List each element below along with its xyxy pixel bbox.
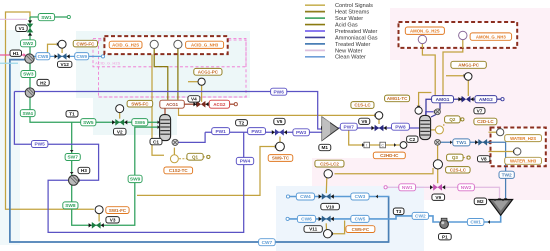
- equipment label H3: [78, 167, 90, 173]
- stream label SW9: [128, 175, 142, 182]
- svg-text:SW9: SW9: [130, 177, 141, 183]
- controller AMG1-TC: [415, 107, 422, 114]
- stream label SW2: [21, 40, 36, 47]
- stream label CW9: [75, 53, 89, 60]
- svg-text:C1S2-TC: C1S2-TC: [169, 168, 189, 173]
- stream label SW8: [63, 202, 78, 209]
- heat exchanger H1: [25, 54, 34, 63]
- wire main pretreated line: [205, 131, 322, 133]
- source label AMON_G_H2S: [405, 27, 444, 34]
- wire heat Q2 terminal link: [459, 118, 462, 120]
- wire TW2 down to M2: [505, 142, 507, 198]
- wire AMON circle1 stub: [421, 43, 423, 48]
- valve V10: [322, 193, 326, 200]
- wire AMON circle2 stub: [462, 39, 464, 48]
- wire control ACG1-PC to V4: [201, 85, 203, 101]
- svg-text:V8: V8: [481, 157, 487, 162]
- wire heat Q1 terminal link: [203, 156, 207, 158]
- terminal ACG2: [234, 103, 237, 106]
- svg-text:Ammoniacal Gas: Ammoniacal Gas: [335, 35, 378, 41]
- svg-text:PW7: PW7: [344, 124, 355, 130]
- equipment label V12: [58, 61, 72, 67]
- equipment label V5: [274, 118, 285, 124]
- wire sour tee T1 down branch: [72, 122, 159, 225]
- wire heat Q3 terminal link: [463, 157, 466, 159]
- instrument square 1: [364, 142, 370, 148]
- stream label CW6: [297, 215, 315, 222]
- stream label NW2: [458, 184, 475, 191]
- equipment label C2: [407, 136, 418, 142]
- svg-text:AMG1-TC: AMG1-TC: [387, 96, 408, 101]
- control label SW9-TC: [268, 155, 293, 162]
- stream label CW7: [259, 239, 276, 246]
- node ACID circle2: [174, 40, 182, 48]
- terminal Q3: [467, 156, 470, 159]
- valve V9: [433, 184, 437, 191]
- svg-text:V6: V6: [361, 119, 367, 124]
- column C1: [160, 115, 171, 141]
- stream label PW5: [31, 141, 48, 148]
- stream label NW1: [399, 184, 416, 191]
- wire C2 overhead to AMG1: [426, 99, 431, 115]
- wire control AMG1-PC to V7: [467, 80, 469, 96]
- control label AMG1-TC: [385, 95, 410, 102]
- wire control AMON H2S to AMG1: [422, 43, 435, 95]
- svg-text:t: t: [366, 143, 367, 147]
- svg-text:CW9: CW9: [76, 54, 87, 60]
- pump P1: [440, 220, 449, 229]
- wire C1 bottoms to PW1: [179, 132, 206, 142]
- background tint acid-gas area: [76, 31, 250, 98]
- terminal AMG2: [501, 98, 504, 101]
- background tint sour-water area: [93, 98, 177, 135]
- svg-text:H3: H3: [81, 168, 87, 173]
- stream label CW5: [351, 215, 369, 222]
- node AMON circle1: [418, 35, 426, 43]
- svg-text:Q1: Q1: [192, 154, 199, 159]
- svg-text:Q3: Q3: [452, 155, 459, 160]
- arrow into H3: [70, 172, 74, 174]
- wire khaki into WATER_NH3 circle: [489, 151, 514, 153]
- equipment label C1: [150, 138, 162, 144]
- svg-text:V10: V10: [326, 204, 335, 209]
- svg-text:PW3: PW3: [296, 130, 307, 136]
- dashed box WATER: [491, 128, 546, 167]
- terminal CW6: [286, 217, 289, 220]
- wire ACG1 to V4: [185, 103, 198, 105]
- stream label CW1: [467, 219, 484, 226]
- svg-text:CW2: CW2: [415, 214, 426, 220]
- equipment label P1: [439, 234, 452, 240]
- area boundary dashed magenta: [98, 40, 246, 97]
- wire control AMG1-TC: [419, 93, 432, 107]
- svg-text:SW8: SW8: [65, 203, 76, 209]
- stream label PW4: [236, 157, 253, 164]
- controller C2S-LC2: [324, 170, 332, 178]
- wire heat Q2 out: [443, 123, 445, 126]
- valve V8: [478, 139, 482, 146]
- svg-text:T3: T3: [396, 209, 402, 214]
- wire AMG2 out: [497, 98, 501, 100]
- svg-text:CW7: CW7: [262, 240, 273, 246]
- stream label PW8: [392, 123, 410, 130]
- svg-text:PW6: PW6: [273, 89, 284, 95]
- terminal Q1: [207, 155, 210, 158]
- svg-text:V5: V5: [277, 119, 283, 124]
- stream label PW1: [212, 128, 230, 135]
- wire control CW5-FC to V11: [325, 223, 327, 229]
- wire V7 to AMG2: [470, 98, 475, 100]
- control label SW5-FC: [127, 100, 153, 107]
- valve V7: [462, 96, 466, 103]
- svg-text:C2D-LC: C2D-LC: [477, 119, 494, 124]
- control label AMG1-PC: [451, 61, 486, 68]
- control label C1S2-TC: [164, 167, 193, 174]
- source label ACG2: [209, 100, 229, 108]
- valve V1: [27, 24, 34, 28]
- equipment label M1: [319, 144, 331, 150]
- svg-text:SW9-TC: SW9-TC: [272, 156, 290, 161]
- wire heat Q1 stub: [173, 148, 175, 155]
- stream label PW2: [248, 128, 266, 135]
- wire CW vertical riser: [388, 197, 390, 243]
- wire acid circle1 to ACG1: [154, 48, 168, 100]
- svg-text:SW7: SW7: [67, 155, 78, 161]
- svg-text:TW1: TW1: [456, 140, 466, 146]
- control label Q3: [447, 154, 464, 161]
- svg-text:PW5: PW5: [34, 142, 45, 148]
- svg-text:ACID_G_H2S: ACID_G_H2S: [112, 43, 139, 48]
- svg-text:Control Signals: Control Signals: [335, 3, 373, 9]
- wire C1 overhead to ACG1: [164, 108, 166, 115]
- control label C1S-LC: [351, 102, 374, 109]
- wire control SW1-FC to V1: [6, 12, 94, 209]
- stream label SW6: [132, 119, 148, 126]
- stream label CW8: [36, 53, 50, 60]
- equipment label V3: [106, 217, 119, 223]
- svg-text:PW8: PW8: [395, 124, 406, 130]
- svg-text:C1: C1: [153, 139, 159, 144]
- svg-text:PW2: PW2: [251, 129, 262, 135]
- wire AMG1 to V7: [454, 98, 462, 100]
- control label CWS-FC: [73, 40, 97, 47]
- wire V4 to ACG2: [205, 103, 210, 105]
- equipment label V6: [359, 118, 370, 124]
- svg-text:Heat Streams: Heat Streams: [335, 10, 369, 16]
- svg-text:CW3: CW3: [355, 194, 366, 200]
- stream label CW4: [296, 193, 314, 200]
- controller SW5-FC: [116, 105, 124, 113]
- wire acid circle2 to ACG1: [177, 48, 179, 100]
- svg-text:PW1: PW1: [215, 129, 226, 135]
- wire control CW5-FC sensor: [332, 221, 345, 234]
- area boundary dashed magenta 2: [98, 96, 248, 98]
- wire control C1S-LC to V6: [378, 119, 380, 124]
- heat port Q2: [435, 126, 443, 134]
- stream label SW4: [20, 110, 35, 117]
- stream label AMG2: [475, 96, 497, 103]
- svg-text:P1: P1: [442, 234, 448, 239]
- stream label PW7: [340, 123, 357, 130]
- svg-text:V2: V2: [117, 129, 123, 134]
- source label WATER_H2S: [505, 135, 542, 142]
- control label Q2: [445, 116, 461, 123]
- dashed box AMON_G: [399, 22, 518, 48]
- dashed box ACID_G: [104, 36, 227, 54]
- svg-text:V4: V4: [191, 97, 197, 102]
- svg-text:SW5-FC: SW5-FC: [131, 101, 149, 106]
- wire mixer to C2: [431, 115, 436, 118]
- compressor M1: [322, 117, 339, 141]
- wire NW row: [387, 187, 499, 198]
- wire heat aux left of C1: [152, 55, 164, 156]
- stream label SW7: [65, 154, 80, 161]
- control label CW5-FC: [346, 226, 375, 233]
- svg-text:M2: M2: [477, 199, 484, 204]
- stream label AMG1: [432, 96, 454, 103]
- wire H1 cooling loop: [10, 60, 389, 242]
- svg-text:TW2: TW2: [502, 173, 512, 179]
- mixer M2 funnel: [489, 200, 513, 216]
- source label WATER_NH3: [505, 157, 542, 164]
- controller C2S-LC: [433, 160, 442, 169]
- equipment label V4: [188, 96, 200, 102]
- terminal SW1: [67, 15, 70, 18]
- terminal Q2: [461, 118, 464, 121]
- wire sour main vertical: [30, 16, 38, 18]
- svg-text:H2: H2: [40, 80, 46, 85]
- wire control ACG1-PC inlet: [188, 81, 198, 83]
- controller CWS-FC: [58, 40, 66, 48]
- terminal CW9: [101, 55, 104, 58]
- svg-text:SW2: SW2: [23, 41, 34, 47]
- controller SW9-TC: [276, 142, 285, 151]
- svg-text:C2S-LC2: C2S-LC2: [320, 161, 339, 166]
- svg-text:WATER_H2S: WATER_H2S: [510, 136, 536, 141]
- svg-text:NW1: NW1: [402, 185, 413, 191]
- control label C2S-LC2: [315, 160, 344, 167]
- wire khaki into WATER_H2S circle: [489, 131, 497, 133]
- stream label SW5: [81, 119, 96, 126]
- svg-text:C1S-LC: C1S-LC: [354, 103, 371, 108]
- wire control CWS-FC to V12: [61, 48, 63, 53]
- wire H1 to CW8 CW9: [34, 55, 102, 57]
- wire SW1 out: [55, 16, 67, 18]
- svg-text:V11: V11: [309, 227, 317, 232]
- svg-text:CW4: CW4: [300, 194, 311, 200]
- svg-text:SW5: SW5: [83, 120, 94, 126]
- svg-text:Q2: Q2: [449, 117, 456, 122]
- svg-text:ACG1-PC: ACG1-PC: [198, 70, 219, 75]
- wire treated into WATER box: [487, 142, 506, 166]
- background tint water area: [400, 60, 550, 200]
- wire PW6 long line: [14, 92, 321, 130]
- svg-text:AMON_G_H2S: AMON_G_H2S: [410, 28, 440, 33]
- svg-text:Sour Water: Sour Water: [335, 16, 363, 22]
- equipment label M2: [474, 198, 486, 205]
- equipment label H2: [37, 79, 49, 85]
- background tint pink mid: [312, 158, 408, 192]
- svg-text:SW3: SW3: [23, 72, 34, 78]
- svg-text:V9: V9: [435, 195, 441, 200]
- svg-text:C2: C2: [409, 137, 415, 142]
- heat exchanger H2: [25, 88, 34, 97]
- source label ACG1: [160, 100, 185, 108]
- stream label TW1: [453, 139, 470, 146]
- wire control SW9-TC to V5: [279, 137, 281, 142]
- valve V6: [375, 125, 379, 132]
- wire new water top stub: [0, 18, 27, 20]
- wire M1 outlet line: [338, 112, 434, 128]
- wire clean stub into H1: [0, 62, 18, 64]
- equipment label T2: [236, 120, 248, 126]
- equipment label V2: [114, 128, 127, 135]
- svg-text:V7: V7: [477, 108, 483, 113]
- valve V11: [322, 216, 326, 223]
- terminal CW4: [286, 195, 289, 198]
- node AMON circle2: [459, 31, 467, 39]
- node ACID circle1: [150, 40, 158, 48]
- controller SW1-FC: [95, 206, 103, 214]
- control label Q1: [187, 153, 203, 160]
- wire ACG2 out: [229, 103, 234, 105]
- wire control AMG1-PC sensor: [446, 75, 464, 77]
- svg-text:CW5: CW5: [355, 217, 366, 223]
- control label C2S-LC: [446, 167, 471, 173]
- svg-text:Treated Water: Treated Water: [335, 42, 370, 48]
- node WATER circle2: [514, 148, 521, 155]
- controller AMG1-PC: [464, 73, 472, 81]
- svg-text:SW4: SW4: [22, 111, 33, 117]
- equipment label V7: [474, 108, 485, 114]
- source label AMON_G_NH3: [470, 33, 512, 40]
- stream label SW3: [21, 71, 36, 78]
- control label C2D-LC: [474, 118, 497, 125]
- svg-text:PW4: PW4: [240, 159, 251, 165]
- controller ACG1-PC: [198, 78, 205, 85]
- svg-text:M1: M1: [322, 145, 329, 150]
- equipment label V1: [16, 25, 28, 32]
- wire CW row2: [289, 216, 412, 219]
- wire control C2S-LC2 sense: [335, 168, 434, 174]
- controller CW5-FC: [324, 230, 332, 238]
- svg-text:WATER_NH3: WATER_NH3: [510, 159, 537, 164]
- wire C2 bottoms to TW1 V8 WATER: [440, 141, 505, 143]
- source label ACID_G_NH3: [186, 41, 224, 48]
- wire control SW9-TC loop: [137, 147, 275, 196]
- wire heat Q1 out: [179, 158, 187, 160]
- wire AMG1 recycle to mixer: [439, 103, 441, 108]
- equipment label V8: [478, 156, 490, 162]
- svg-text:ACG1: ACG1: [166, 102, 179, 107]
- heat port Q1: [170, 155, 178, 163]
- terminal NW1: [384, 186, 387, 189]
- wire heat C1 level to C1S-LC: [179, 109, 376, 116]
- svg-text:AMG2: AMG2: [479, 97, 493, 103]
- svg-text:New Water: New Water: [335, 48, 363, 54]
- wire control C2S-LC2 to V10: [325, 178, 328, 193]
- svg-text:CW5-FC: CW5-FC: [352, 227, 370, 232]
- equipment label T1: [66, 111, 78, 117]
- valve V2: [115, 119, 119, 126]
- wire control C2 bottom to C2S-LC: [437, 145, 439, 160]
- wire heat Q2 stub: [431, 129, 435, 131]
- wire control C2HD-IC: [349, 130, 400, 146]
- svg-text:SW1: SW1: [41, 15, 52, 21]
- svg-text:ACG2: ACG2: [213, 102, 226, 107]
- svg-text:V1: V1: [19, 26, 25, 31]
- background tint clean-water area: [276, 186, 424, 251]
- svg-text:NW2: NW2: [461, 185, 472, 191]
- control label ACG1-PC: [194, 68, 222, 75]
- legend: [305, 3, 378, 61]
- svg-text:SW1-FC: SW1-FC: [109, 208, 127, 213]
- valve V12: [58, 53, 62, 60]
- pump C1 bottoms: [172, 139, 178, 145]
- svg-text:CW1: CW1: [470, 220, 481, 226]
- stream label SW1: [38, 14, 54, 21]
- stream label CW3: [351, 193, 369, 200]
- control label C2HD-IC: [373, 152, 405, 159]
- controller C1S-LC: [375, 112, 383, 120]
- svg-text:SW6: SW6: [135, 120, 146, 126]
- equipment label V9: [432, 194, 445, 200]
- stream label TW2: [499, 171, 514, 178]
- svg-text:H1: H1: [13, 51, 19, 56]
- wire CW row1: [290, 196, 390, 198]
- instrument square 2: [380, 142, 386, 148]
- wire control CWS-FC stub: [48, 44, 57, 52]
- svg-text:V12: V12: [61, 62, 70, 67]
- svg-text:T1: T1: [69, 112, 75, 117]
- wire control SW1-FC to V3: [98, 214, 100, 222]
- mixer before C2: [435, 109, 441, 115]
- equipment label H1: [10, 50, 22, 56]
- svg-text:Pretreated Water: Pretreated Water: [335, 29, 378, 35]
- background tint amon area: [390, 8, 550, 60]
- svg-text:C: C: [381, 143, 384, 147]
- stream label CW2: [412, 212, 429, 219]
- svg-text:CW6: CW6: [301, 217, 312, 223]
- wire H3 to PW4 loop: [48, 132, 244, 232]
- valve V4: [197, 101, 201, 108]
- wire PW5 loop: [14, 92, 98, 181]
- svg-text:ACID_G_NH3: ACID_G_NH3: [191, 43, 219, 48]
- equipment label T3: [393, 208, 404, 215]
- wire control C2S-LC to V9: [437, 169, 439, 183]
- svg-text:V3: V3: [110, 218, 116, 223]
- wire new water into H1: [0, 54, 24, 56]
- node WATER circle1: [497, 129, 504, 136]
- wire P1 to CW2: [429, 216, 440, 222]
- svg-text:C2S-LC: C2S-LC: [450, 168, 467, 173]
- heat exchanger H3: [69, 175, 79, 185]
- equipment label V10: [321, 203, 340, 209]
- wire control SW5-FC to V2: [119, 113, 121, 119]
- svg-text:C2HD-IC: C2HD-IC: [380, 153, 399, 158]
- svg-text:T2: T2: [239, 120, 245, 125]
- background tint left strip: [0, 30, 20, 245]
- controller C2HD-IC: [400, 142, 407, 149]
- stream label PW3: [293, 129, 310, 136]
- wire M2 to CW1 to P1: [448, 215, 500, 223]
- source label ACID_G_H2S: [109, 41, 142, 48]
- svg-text:AMON_G_NH3: AMON_G_NH3: [476, 34, 506, 39]
- svg-text:CW8: CW8: [38, 54, 49, 60]
- valve V5: [275, 129, 279, 136]
- svg-text:AMG1: AMG1: [436, 97, 450, 103]
- svg-text:CWS-FC: CWS-FC: [76, 41, 95, 46]
